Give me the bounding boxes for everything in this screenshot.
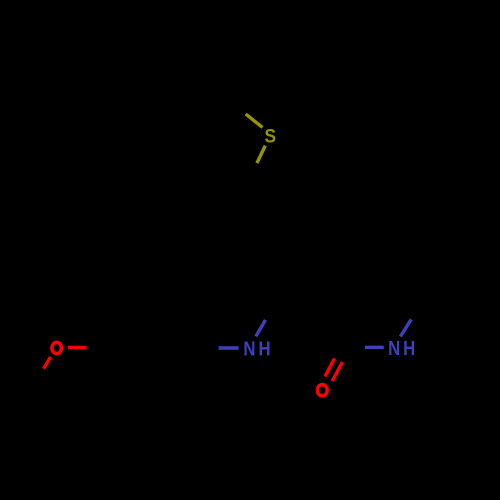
- anilino NH label: [243, 337, 273, 360]
- methoxy O-C(aryl) bond (O half): [68, 346, 87, 349]
- svg-text:NH: NH: [243, 337, 273, 360]
- thiophene S-C bond lower (S half): [257, 146, 265, 164]
- svg-text:S: S: [264, 125, 276, 147]
- anilino N-C bond diagonal (N half): [256, 320, 266, 336]
- svg-text:NH: NH: [388, 337, 418, 360]
- methoxy O label: [52, 342, 62, 353]
- amide N-C(=O) bond (N half): [365, 346, 384, 349]
- amide NH label: [388, 337, 418, 360]
- sulfur S label: [264, 125, 276, 147]
- methoxy O-CH3 bond (O half): [44, 357, 51, 369]
- thiophene S-C bond upper (S half): [246, 114, 263, 127]
- anilino N-C(aryl) bond (N half): [219, 346, 239, 349]
- carbonyl O label: [317, 385, 327, 396]
- carbonyl C=O double bond line 2 (O half): [332, 362, 342, 381]
- carbonyl C=O double bond line 1 (O half): [325, 358, 335, 376]
- amide N-CH3 bond (N half): [400, 319, 411, 336]
